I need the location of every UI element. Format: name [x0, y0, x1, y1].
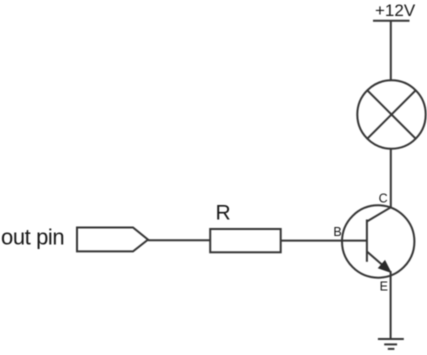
svg-text:+12V: +12V: [375, 1, 416, 20]
svg-text:C: C: [379, 192, 388, 206]
transistor Q1: [342, 205, 414, 277]
svg-text:out pin: out pin: [1, 225, 64, 250]
resistor R: [210, 229, 281, 252]
lamp: [357, 80, 425, 148]
wire lamp to collector: [390, 149, 392, 208]
svg-text:E: E: [380, 280, 388, 294]
wire resistor to base: [281, 240, 367, 242]
wire emitter to ground: [390, 271, 392, 339]
port out pin: [77, 228, 148, 252]
wire +12V rail to lamp: [390, 21, 392, 81]
svg-text:B: B: [333, 225, 341, 239]
wire port to resistor: [148, 239, 210, 241]
power rail bar +12V: [373, 20, 410, 22]
ground: [378, 339, 404, 349]
svg-text:R: R: [216, 201, 231, 224]
